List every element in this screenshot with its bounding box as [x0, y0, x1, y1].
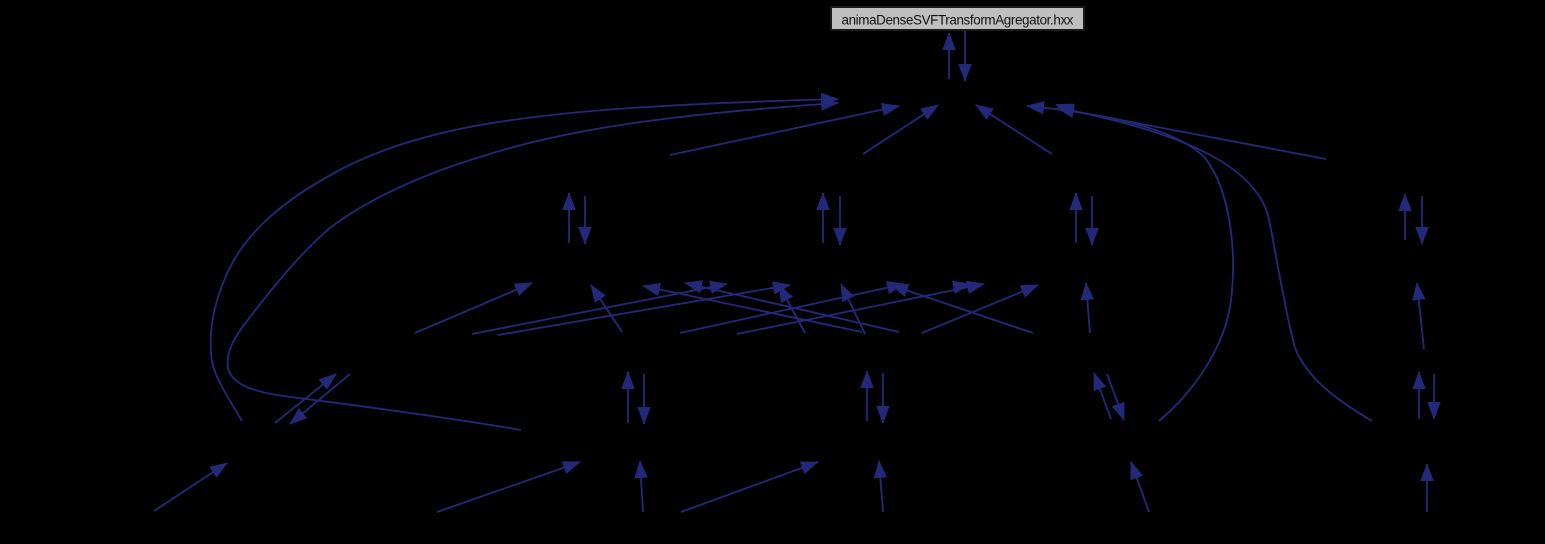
edge p2 up [866, 371, 868, 421]
edge w1 [415, 283, 532, 333]
edge q1 up [568, 193, 570, 243]
svg-text:animaDenseSVFTransformAgregato: animaDenseSVFTransformAgregator.hxx [842, 13, 1074, 28]
edge p3 up slanted [1094, 373, 1111, 419]
edge p2 down [882, 373, 884, 423]
edge L1 long left curve [211, 99, 838, 421]
edge q4 up [1404, 194, 1406, 240]
edge w12 [891, 285, 1033, 333]
edge b2 [437, 462, 580, 512]
edge w6 [737, 284, 984, 334]
edge w9 [841, 284, 865, 334]
edge K1 right curve inner [1027, 106, 1233, 421]
edge K2 right curve outer [1056, 105, 1372, 422]
edge w2 [472, 284, 727, 334]
node animaDenseSVFTransformAgregator.hxx [831, 7, 1084, 30]
edge p3 down slanted [1107, 374, 1124, 420]
edge w11 [922, 285, 1038, 333]
edge b4 [681, 462, 818, 512]
edge S1 into h node bottom [670, 106, 899, 155]
edge b7 [1426, 464, 1428, 512]
edge w10 [685, 283, 899, 332]
edge w6b extra head [966, 283, 970, 286]
edge b3 [640, 461, 643, 512]
edge E1 up into hxx box [948, 33, 950, 79]
edge p4 up [1418, 372, 1420, 419]
edge b1 [154, 463, 227, 511]
edge M1 right column single [1417, 283, 1424, 349]
edge w5 [680, 284, 904, 333]
edge q4 down [1421, 196, 1423, 244]
edge w13 [1086, 283, 1090, 333]
edge K3 straight from right [1057, 108, 1326, 159]
edge q3 down [1091, 196, 1093, 245]
edge d up diagonal bottom-left [275, 374, 336, 423]
edge w7 [779, 285, 805, 333]
edge p1 up [627, 372, 629, 423]
edge q2 down [839, 196, 841, 245]
edge q3 up [1075, 193, 1077, 243]
edge p4 down [1433, 374, 1435, 419]
edge b6 [1131, 462, 1149, 512]
edge w3 [498, 285, 790, 335]
edge S2 into h node bottom [863, 105, 938, 154]
edge L2 long left curve inner [227, 103, 838, 430]
edge w4 [591, 285, 622, 332]
edge d down diagonal bottom-left [290, 374, 350, 424]
edge S3 into h node bottom [976, 105, 1052, 154]
edge b5 [879, 461, 883, 512]
edge q2 up [822, 193, 824, 243]
edge q1 down [584, 196, 586, 244]
edge w8 [643, 286, 862, 332]
edge p1 down [643, 374, 645, 424]
edge E2 down from hxx box [964, 31, 966, 81]
